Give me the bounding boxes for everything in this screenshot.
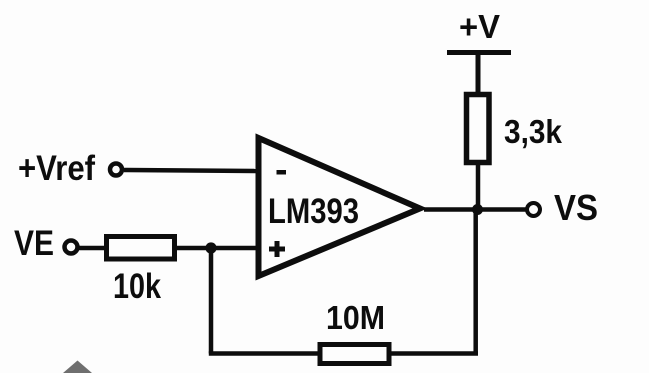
svg-text:+V: +V: [459, 8, 500, 45]
watermark arrow bottom-left: [63, 361, 92, 373]
non-inverting input marker +: [269, 247, 285, 252]
svg-text:10k: 10k: [113, 267, 161, 306]
op-amp U1 LM393 triangle: [259, 138, 421, 276]
wire VE to R1: [78, 246, 108, 251]
resistor R3 10M body: [320, 345, 389, 364]
feedback vertical wire up to output: [473, 210, 478, 354]
resistor R1 10k body: [107, 237, 175, 260]
output wire tip to VS: [424, 207, 527, 212]
resistor R2 3,3k body: [467, 95, 490, 163]
wire +Vref to inverting input: [124, 170, 259, 171]
wire junction down to feedback: [209, 248, 214, 354]
svg-text:10M: 10M: [326, 299, 385, 336]
svg-text:VE: VE: [14, 224, 54, 263]
wire +V bar to R2: [476, 54, 481, 95]
svg-text:LM393: LM393: [268, 192, 359, 231]
terminal VS: [527, 203, 540, 216]
svg-text:+Vref: +Vref: [18, 149, 95, 188]
terminal VE: [65, 241, 78, 254]
+V supply rail bar: [447, 50, 511, 55]
output junction node: [472, 204, 483, 215]
wire R1 to non-inverting input: [174, 246, 259, 251]
feedback bottom wire right segment: [389, 351, 478, 356]
feedback bottom wire left segment: [209, 351, 320, 356]
wire R2 to output node: [476, 162, 481, 210]
svg-text:VS: VS: [554, 187, 598, 228]
terminal +Vref: [110, 164, 122, 176]
junction node at + input: [205, 242, 216, 253]
svg-text:3,3k: 3,3k: [504, 113, 563, 150]
inverting input marker -: [277, 170, 287, 175]
